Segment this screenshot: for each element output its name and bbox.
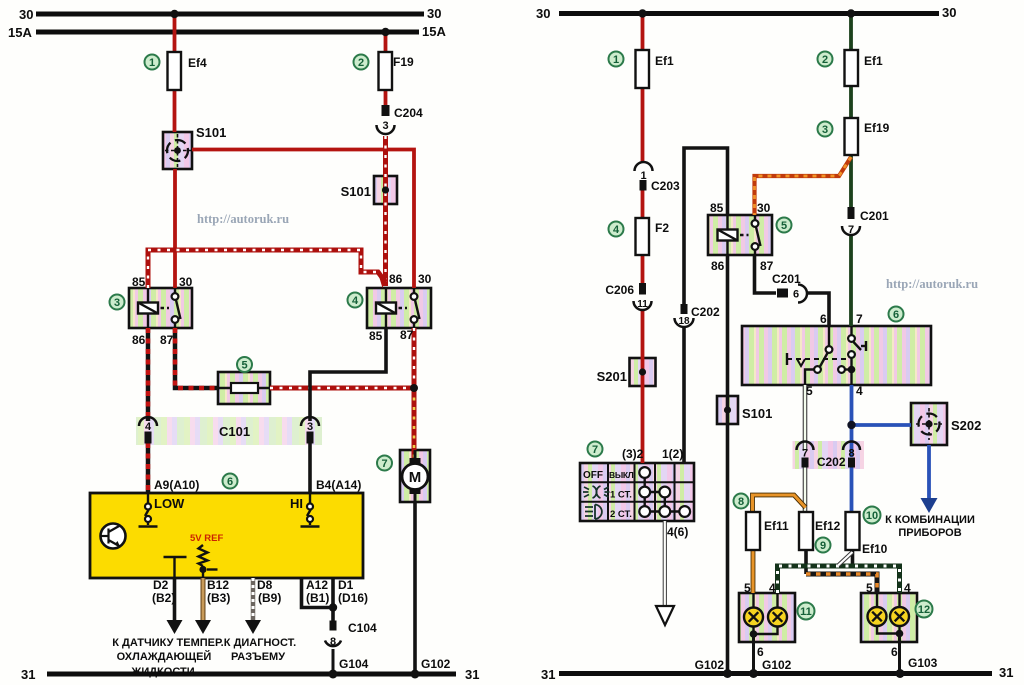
svg-text:S101: S101: [341, 184, 371, 199]
svg-text:6: 6: [820, 312, 827, 326]
svg-text:G102: G102: [762, 658, 792, 672]
svg-text:D1: D1: [338, 578, 354, 592]
svg-text:5: 5: [866, 581, 873, 595]
svg-text:ВЫКЛ: ВЫКЛ: [609, 470, 634, 480]
svg-text:http://autoruk.ru: http://autoruk.ru: [886, 277, 978, 291]
svg-text:86: 86: [132, 333, 146, 347]
svg-text:(D16): (D16): [338, 591, 368, 605]
svg-text:Ef1: Ef1: [655, 54, 674, 68]
svg-text:4: 4: [613, 224, 620, 236]
svg-text:87: 87: [160, 333, 174, 347]
svg-text:6: 6: [793, 289, 799, 301]
svg-text:5: 5: [781, 220, 787, 232]
svg-text:http://autoruk.ru: http://autoruk.ru: [197, 212, 289, 226]
svg-text:G102: G102: [421, 657, 451, 671]
svg-text:7: 7: [856, 312, 863, 326]
svg-text:C204: C204: [394, 106, 423, 120]
svg-text:B12: B12: [207, 578, 229, 592]
svg-text:(3)2: (3)2: [622, 447, 644, 461]
svg-text:Ef19: Ef19: [864, 121, 890, 135]
svg-text:12: 12: [918, 604, 930, 616]
svg-text:К ДАТЧИКУ ТЕМПЕР.: К ДАТЧИКУ ТЕМПЕР.: [112, 637, 223, 649]
svg-text:F2: F2: [655, 221, 669, 235]
svg-text:3: 3: [822, 124, 828, 136]
svg-text:30: 30: [179, 275, 193, 289]
svg-text:F19: F19: [393, 55, 414, 69]
svg-text:S101: S101: [196, 125, 226, 140]
svg-text:8: 8: [738, 496, 744, 508]
svg-text:5: 5: [744, 581, 751, 595]
svg-text:C203: C203: [651, 179, 680, 193]
svg-text:Ef11: Ef11: [764, 519, 789, 533]
svg-text:C202: C202: [691, 305, 720, 319]
svg-text:30: 30: [19, 7, 33, 22]
svg-text:7: 7: [381, 458, 387, 470]
svg-text:4: 4: [352, 295, 359, 307]
svg-text:C202: C202: [817, 455, 846, 469]
svg-text:ПРИБОРОВ: ПРИБОРОВ: [898, 527, 961, 539]
svg-text:85: 85: [710, 201, 724, 215]
svg-text:К КОМБИНАЦИИ: К КОМБИНАЦИИ: [885, 514, 975, 526]
svg-text:31: 31: [541, 667, 555, 682]
svg-text:Ef10: Ef10: [862, 542, 888, 556]
svg-text:Ef12: Ef12: [815, 519, 841, 533]
svg-text:5V REF: 5V REF: [190, 533, 223, 544]
svg-text:2: 2: [358, 57, 364, 69]
svg-text:S202: S202: [951, 418, 981, 433]
svg-text:ЖИДКОСТИ: ЖИДКОСТИ: [130, 666, 194, 678]
svg-text:(B1): (B1): [306, 591, 329, 605]
svg-text:4: 4: [904, 581, 911, 595]
svg-text:S101: S101: [742, 406, 772, 421]
svg-text:31: 31: [21, 667, 35, 682]
svg-text:G104: G104: [339, 657, 369, 671]
svg-text:31: 31: [999, 665, 1013, 680]
svg-text:6: 6: [227, 476, 233, 488]
svg-text:87: 87: [400, 328, 414, 342]
svg-text:S201: S201: [597, 369, 627, 384]
svg-text:10: 10: [866, 510, 878, 522]
svg-text:HI: HI: [290, 496, 303, 511]
svg-text:6: 6: [891, 645, 898, 659]
svg-text:2: 2: [822, 54, 828, 66]
svg-text:Ef1: Ef1: [864, 54, 883, 68]
svg-text:85: 85: [369, 329, 383, 343]
svg-text:3: 3: [114, 297, 120, 309]
svg-text:A12: A12: [306, 578, 328, 592]
svg-text:D8: D8: [257, 578, 273, 592]
svg-text:4(6): 4(6): [667, 525, 688, 539]
svg-text:7: 7: [592, 444, 598, 456]
svg-text:30: 30: [418, 272, 432, 286]
svg-text:C104: C104: [348, 621, 377, 635]
svg-text:11: 11: [800, 606, 812, 618]
svg-text:C201: C201: [772, 272, 801, 286]
svg-text:РАЗЪЕМУ: РАЗЪЕМУ: [231, 651, 285, 663]
svg-text:ОХЛАЖДАЮЩЕЙ: ОХЛАЖДАЮЩЕЙ: [117, 650, 212, 663]
svg-text:6: 6: [757, 645, 764, 659]
svg-text:1 СТ.: 1 СТ.: [610, 490, 632, 501]
svg-text:9: 9: [820, 540, 826, 552]
svg-text:15A: 15A: [8, 25, 32, 40]
svg-text:15A: 15A: [422, 24, 446, 39]
svg-text:C201: C201: [860, 209, 889, 223]
svg-text:30: 30: [427, 6, 441, 21]
svg-text:К ДИАГНОСТ.: К ДИАГНОСТ.: [224, 637, 296, 649]
svg-text:30: 30: [942, 5, 956, 20]
svg-text:M: M: [409, 469, 422, 486]
svg-text:OFF: OFF: [583, 470, 603, 481]
svg-text:G103: G103: [908, 656, 938, 670]
svg-text:(B2): (B2): [152, 591, 175, 605]
svg-text:86: 86: [389, 272, 403, 286]
svg-text:4: 4: [769, 581, 776, 595]
svg-text:1(2): 1(2): [662, 447, 683, 461]
svg-text:4: 4: [856, 384, 863, 398]
svg-text:87: 87: [760, 259, 774, 273]
svg-text:D2: D2: [153, 578, 169, 592]
svg-text:(B9): (B9): [258, 591, 281, 605]
svg-text:2 СТ.: 2 СТ.: [610, 509, 632, 520]
svg-text:30: 30: [536, 6, 550, 21]
svg-text:5: 5: [806, 384, 813, 398]
svg-text:B4(A14): B4(A14): [316, 478, 361, 492]
svg-text:85: 85: [132, 275, 146, 289]
svg-text:A9(A10): A9(A10): [154, 478, 199, 492]
svg-text:6: 6: [893, 309, 899, 321]
svg-text:(B3): (B3): [207, 591, 230, 605]
svg-text:1: 1: [613, 54, 619, 66]
svg-text:4: 4: [145, 421, 152, 433]
svg-text:1: 1: [149, 57, 155, 69]
svg-text:86: 86: [711, 259, 725, 273]
svg-text:LOW: LOW: [154, 496, 185, 511]
svg-text:5: 5: [241, 360, 247, 372]
svg-text:31: 31: [465, 667, 479, 682]
svg-text:3: 3: [382, 120, 388, 132]
svg-text:C101: C101: [219, 424, 250, 439]
svg-text:3: 3: [307, 421, 313, 433]
svg-text:Ef4: Ef4: [188, 56, 207, 70]
svg-text:30: 30: [757, 201, 771, 215]
svg-text:G102: G102: [695, 658, 725, 672]
svg-text:C206: C206: [605, 283, 634, 297]
